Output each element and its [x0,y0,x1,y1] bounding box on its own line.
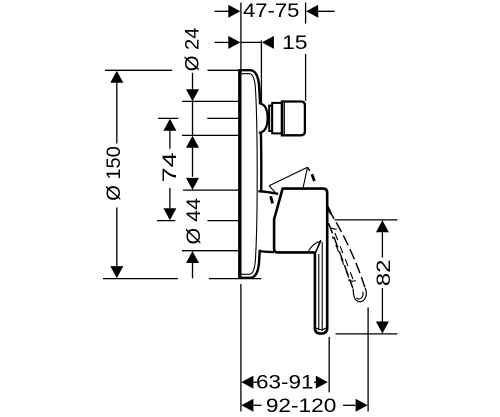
arrow: 74 top (points up) tip at 169.9,118.7 [163,119,176,131]
dashed lever cross tick lower [348,280,356,281]
svg-text:Ø 150: Ø 150 [104,146,125,201]
wire: dim O150 line lower [116,208,118,267]
diverter knob dome [259,103,268,133]
lever up-position flag lower join [269,186,275,193]
svg-text:63-91: 63-91 [256,372,314,393]
diverter knob barrel [282,102,305,136]
dashed lever left edge [329,223,353,288]
wire: dim 74 line lower [169,188,171,208]
lever blade inner line B [321,242,323,331]
arrow: 74 bottom (points down) tip at 169.9,220.3 [163,208,176,220]
escutcheon plate back edge [238,69,241,279]
wire: dim 92-120 line bits [254,404,262,406]
wire: ext line horizontal plate bottom y=278.6 [103,278,178,280]
wire: dim 15 left tail [215,41,230,43]
dashed lever tip inner arc [356,292,363,299]
wire: ext line hub center y=220.6 [207,220,239,222]
arrow: 15 left (points right) tip at 240.3,42.4 [228,36,240,49]
wire: extension line vertical at wall plane x=240.9 (top) [240,3,242,70]
sleeve bottom edge [259,251,274,252]
arrow: 15 right (points left) tip at 261.9,42.4 [262,36,274,49]
wire: extension line vertical x=240.9 (bottom) [240,284,242,412]
dashed lever inner line 1 [335,233,354,282]
wire: dim O24 chain line segments x=192.5 [192,73,194,90]
lever up-position flag tip tick [308,167,310,171]
wire: ext line horizontal plate top y=70.3 [105,69,172,71]
wire: ext line 82 top y=219.9 [335,219,398,221]
sleeve top edge [258,191,278,194]
arrow: 63-91 left (points left) tip at 241.4,382.1 [241,376,253,389]
lever blade top wedge edge [316,240,321,252]
dashed lever right edge [328,210,365,289]
diverter knob ring 2 [272,103,282,133]
wire: ext line knob bottom y=135.4 [182,134,240,136]
escutcheon plate body [240,70,261,278]
arrow: O24 bottom (points up) tip at 192.5,135.7 [186,136,199,148]
arrow: 63-91 right (points right) tip at 327.8,382.1 [316,376,328,389]
dashed lever tip arc [353,288,366,302]
lever up-position flag line 1 [269,167,307,186]
lever blade inner line A [318,254,320,331]
wire: dim 15 line [241,41,262,43]
svg-text:15: 15 [282,33,308,54]
arrow: 47-75 left (points right) tip at 240.3,11.3 [228,5,240,18]
lever blade top wedge arc [308,241,320,252]
svg-text:92-120: 92-120 [266,396,337,417]
diverter knob barrel inner line [283,103,285,135]
wire: dim 63-91 line bits [254,381,258,383]
wire: ext line 82 bottom y=333.9 [336,333,398,335]
swing arc dash lower [271,196,273,203]
arrow: O44 bottom (points up) tip at 192.5,251 [186,251,199,263]
wire: 74 tick top y=118.4 [158,117,178,119]
sleeve fill between plate and hub [259,192,278,250]
dashed lever solid root [327,206,331,214]
lever handle body (hub + blade) [274,189,327,334]
svg-text:82: 82 [374,260,395,287]
arrow: O150 bottom (points down) tip at 116.8,278.1 [110,266,123,278]
arrow: 92-120 left (points left) tip at 241.4,405.3 [241,399,253,412]
dashed lever inner line 2 [332,237,351,285]
arrow: 82 bottom (points down) tip at 382.4,333.5 [376,322,389,334]
swing arc dash upper [312,174,315,181]
wire: 74 tick bottom y=220.6 [157,220,175,222]
wire: dim 47-75 right tail [318,10,335,12]
wire: dim O150 line upper [116,83,118,144]
wire: ext line knob center y=118.4 [207,117,239,119]
wire: extension line vertical x=305.6 (knob front) [305,3,307,24]
lever up-position flag line 2 [303,167,308,190]
svg-text:47-75: 47-75 [243,1,299,22]
wire: dim O44 chain line bottom [192,263,194,278]
lever blade inner bottom arc [315,327,326,329]
wire: dim 82 line lower [381,288,383,322]
wire: dim 74 line upper [169,131,171,149]
escutcheon plate inner rim [241,74,258,275]
arrow: O24 top (points down) tip at 192.5,101.2 [186,89,199,101]
svg-text:Ø 44: Ø 44 [184,198,205,245]
arrow: 92-120 right (points right) tip at 367.6,405.3 [356,399,368,412]
wire: ext line hub bottom y=250.7 [182,250,240,252]
wire: ext line hub top y=190.1 [183,189,240,191]
wire: extension line vertical x=261.4 (15mm sleeve front) [260,41,262,104]
wire: extension line vertical x=368.1 (lever tip reach) [367,308,369,412]
wire: dim 47-75 left tail [215,10,230,12]
svg-text:Ø 24: Ø 24 [183,27,204,71]
wire: ext line knob top y=101.4 [182,100,240,102]
diverter knob ring 1 [269,106,272,131]
arrow: 82 top (points up) tip at 382.4,220.2 [376,220,389,232]
wire: dim 82 line upper [381,232,383,258]
wire: extension line vertical x=329.2 (handle front) [328,337,330,392]
arrow: O44 top (points down) tip at 192.5,189.9 [186,178,199,190]
dashed lever cross tick upper [330,227,337,229]
arrow: O150 top (points up) tip at 116.8,70.7 [110,71,123,83]
svg-text:74: 74 [160,152,181,182]
arrow: 47-75 right (points left) tip at 306.2,11.3 [306,5,318,18]
